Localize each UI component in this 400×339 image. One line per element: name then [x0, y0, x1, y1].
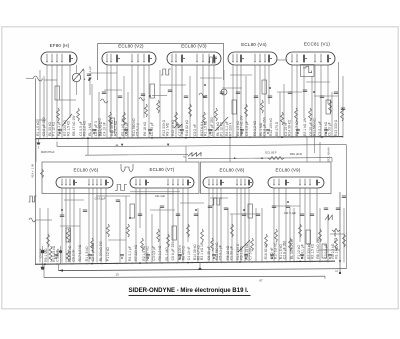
junction dots top — [56, 79, 323, 139]
interstage line b — [85, 153, 188, 156]
junction dots bottom — [44, 201, 341, 265]
waveform pulse pair under V3 — [161, 69, 171, 75]
svg-text:R16 82 kΩ: R16 82 kΩ — [185, 120, 189, 136]
decoupling caps at top bus — [58, 130, 328, 134]
resistors top section — [57, 100, 344, 125]
mid verticals — [36, 137, 320, 162]
svg-text:R2 1,5 kΩ: R2 1,5 kΩ — [67, 120, 71, 135]
svg-text:0,1 μF: 0,1 μF — [88, 66, 92, 75]
ground symbol below bottom bus — [41, 264, 45, 269]
horizontal resistor bottom right — [332, 228, 340, 243]
ground bus bottom section — [35, 261, 335, 264]
waveform box under V1 — [301, 65, 315, 77]
supply junction arrow — [198, 267, 202, 270]
svg-text:C2 8 μF 350: C2 8 μF 350 — [91, 243, 95, 262]
tube pin wires top section — [47, 65, 328, 138]
interstage line c — [186, 144, 346, 268]
component value labels above bottom ground bus — [44, 238, 339, 262]
component value labels above top ground bus — [36, 115, 338, 136]
tube V2 label — [118, 43, 144, 48]
tube V3 label — [181, 43, 207, 48]
svg-text:R3 1 kΩ 1W: R3 1 kΩ 1W — [200, 241, 204, 260]
cap label C11 — [284, 211, 297, 215]
waveform sine at input — [26, 76, 43, 81]
supply line lower — [44, 276, 325, 277]
svg-text:R11 560 kΩ: R11 560 kΩ — [313, 118, 317, 136]
svg-text:C3 0,5 μF: C3 0,5 μF — [324, 244, 328, 259]
svg-text:ECL80 (V8): ECL80 (V8) — [220, 168, 245, 173]
tube V3 envelope ECL80 — [167, 52, 221, 65]
svg-text:RRL (2L0): RRL (2L0) — [290, 152, 302, 156]
svg-text:C3 0,5 μF: C3 0,5 μF — [245, 121, 249, 136]
bus tick marks — [40, 135, 334, 265]
caption underline — [129, 294, 251, 296]
svg-text:C5 0,1 μF: C5 0,1 μF — [219, 245, 223, 260]
link wires top section — [36, 60, 338, 120]
svg-text:R8 470 Ω: R8 470 Ω — [275, 121, 279, 136]
tube pin wires bottom section — [62, 188, 317, 263]
left rotated note — [31, 164, 35, 178]
decoupling caps at bottom bus — [54, 255, 332, 259]
svg-text:R14 39 kΩ: R14 39 kΩ — [288, 120, 292, 136]
waveform pulse top — [208, 57, 217, 63]
svg-text:R16 82 kΩ: R16 82 kΩ — [264, 243, 268, 259]
waveform pulse pair under box1 — [115, 185, 127, 191]
svg-text:C9 2 nF: C9 2 nF — [72, 250, 76, 262]
svg-text:RL 1 MΩ: RL 1 MΩ — [88, 122, 92, 136]
extra wires top section — [40, 70, 343, 138]
svg-text:ECL 80 F: ECL 80 F — [265, 151, 277, 155]
svg-text:R17 6,8 kΩ: R17 6,8 kΩ — [274, 242, 278, 259]
pot arrow diagonal 3 — [238, 240, 250, 252]
waveform pulse mid bottom — [212, 198, 222, 205]
coupling cap 01uF label — [88, 66, 92, 95]
tube V7 label — [150, 167, 175, 172]
svg-text:RL 1 MΩ: RL 1 MΩ — [165, 247, 169, 261]
module box around V8 V9 — [201, 162, 332, 194]
svg-text:R5 4,7 kΩ: R5 4,7 kΩ — [114, 120, 118, 135]
svg-text:13: 13 — [115, 272, 119, 276]
caption SIDER-ONDYNE — [129, 287, 249, 294]
svg-text:C2 8 μF 350: C2 8 μF 350 — [283, 241, 287, 260]
svg-text:a1: a1 — [115, 143, 119, 147]
cap label under V7 — [130, 192, 180, 198]
svg-text:CL 50 μF: CL 50 μF — [150, 122, 154, 136]
supply connectors bottom — [44, 262, 325, 279]
interstage line d — [188, 157, 332, 162]
svg-text:ECC81 (V1): ECC81 (V1) — [304, 41, 331, 46]
svg-text:CL 50 μF: CL 50 μF — [230, 246, 234, 260]
svg-text:R9 1 MΩ: R9 1 MΩ — [240, 246, 244, 260]
svg-text:C7 5 nF: C7 5 nF — [249, 248, 253, 260]
tube V5 label — [304, 41, 331, 46]
waveform sine left bottom — [29, 218, 35, 222]
svg-text:R7 220 k: R7 220 k — [229, 122, 233, 136]
svg-text:R3 1 kΩ 1W: R3 1 kΩ 1W — [303, 117, 307, 136]
svg-text:C8 8 μF 350: C8 8 μF 350 — [263, 117, 267, 136]
svg-text:C3 0,5 μF: C3 0,5 μF — [152, 246, 156, 261]
capacitors top section — [87, 74, 345, 110]
supply line bottom — [59, 269, 347, 271]
svg-text:ECL80 (V4): ECL80 (V4) — [241, 42, 267, 47]
waveform saw mid — [174, 124, 182, 128]
waveform sine 2 — [101, 99, 108, 103]
resistor left bottom 2 — [66, 250, 69, 262]
interstage line a — [57, 142, 186, 147]
waveform sine under V3 — [199, 93, 206, 97]
svg-text:C9 2 nF: C9 2 nF — [193, 124, 197, 136]
resistors bottom section — [47, 224, 346, 251]
tube V1 envelope EF80 — [41, 52, 77, 65]
svg-text:R8 470 Ω: R8 470 Ω — [182, 246, 186, 261]
svg-text:ECL80 (V7): ECL80 (V7) — [150, 167, 175, 172]
tube V6 label — [74, 167, 99, 172]
svg-text:C4 10 nF: C4 10 nF — [103, 122, 107, 136]
boxed resistors top section — [55, 80, 331, 132]
svg-text:C5 0,1 μ: C5 0,1 μ — [136, 123, 140, 136]
svg-text:R6 18 kΩ: R6 18 kΩ — [143, 121, 147, 136]
svg-text:ECL NAHA: ECL NAHA — [327, 147, 331, 161]
svg-text:67: 67 — [259, 278, 263, 282]
ground bus top section — [35, 137, 343, 139]
right rail bottom section — [335, 192, 341, 274]
svg-text:EF80 (H): EF80 (H) — [50, 43, 70, 48]
waveform pulse left bottom — [29, 196, 37, 202]
svg-text:ECL80 (V3): ECL80 (V3) — [181, 43, 207, 48]
svg-text:RL 30 kΩ 1W: RL 30 kΩ 1W — [290, 238, 294, 259]
left arrowhead on supply line — [59, 269, 63, 271]
svg-text:SIDER-ONDYNE - Mire électroniq: SIDER-ONDYNE - Mire électronique B19 I. — [129, 287, 249, 294]
small pot circle — [221, 89, 227, 95]
svg-text:R1 1,5 kΩ: R1 1,5 kΩ — [36, 120, 40, 135]
tube V5 envelope ECC81 — [286, 52, 335, 65]
svg-text:R2L 30kΩ: R2L 30kΩ — [333, 229, 337, 243]
svg-text:R9 1 MΩ: R9 1 MΩ — [44, 248, 48, 262]
svg-text:R17 6,8 kΩ: R17 6,8 kΩ — [78, 244, 82, 261]
resistor left bottom 1 — [49, 246, 52, 262]
extra wires bottom section — [40, 196, 344, 263]
tube V6 envelope ECL80 — [56, 177, 113, 188]
mw label — [41, 151, 55, 154]
svg-text:ECL80 (V2): ECL80 (V2) — [118, 43, 144, 48]
svg-text:R9 2,2 kΩ: R9 2,2 kΩ — [253, 120, 257, 135]
cap label C9 — [94, 196, 105, 200]
svg-text:RB 47 kΩ 1W: RB 47 kΩ 1W — [72, 115, 76, 136]
svg-text:R1 1,5 kΩ: R1 1,5 kΩ — [85, 246, 89, 261]
tube V8 envelope ECL80 — [203, 177, 253, 188]
tube V1 label — [50, 43, 70, 48]
left rail — [35, 79, 37, 265]
bottom marks — [115, 272, 263, 282]
svg-text:R4 0,1 μF: R4 0,1 μF — [301, 244, 305, 259]
tube V2 envelope ECL80 — [102, 52, 156, 65]
tube V8 label — [220, 168, 245, 173]
pot arrow diagonal 2 — [62, 114, 72, 126]
series resistor on line d — [261, 151, 302, 160]
svg-text:R9 1 MΩ: R9 1 MΩ — [166, 122, 170, 136]
right rotated note — [327, 147, 331, 161]
svg-text:P1 12 kΩ: P1 12 kΩ — [106, 247, 110, 261]
electrolytic cap left 2 — [56, 246, 62, 264]
tc label — [183, 154, 186, 158]
boxed resistors bottom section — [66, 204, 327, 258]
interstage line a arrow 2 — [167, 144, 169, 147]
svg-text:C8 8 μF 350: C8 8 μF 350 — [171, 242, 175, 261]
svg-text:R12 100 kΩ: R12 100 kΩ — [269, 118, 273, 136]
module box around V2 V3 — [98, 44, 224, 80]
svg-text:R9 2,2 kΩ: R9 2,2 kΩ — [158, 245, 162, 260]
svg-text:R4 0,1 μF: R4 0,1 μF — [128, 246, 132, 261]
squiggle small a — [139, 98, 145, 101]
svg-text:R2 1,5 kΩ: R2 1,5 kΩ — [311, 243, 315, 258]
interstage line a arrow 1 — [115, 143, 123, 147]
svg-text:ECL80 (V6): ECL80 (V6) — [74, 167, 99, 172]
svg-text:C10 μF: C10 μF — [56, 248, 60, 258]
svg-text:41A + 1 W: 41A + 1 W — [31, 164, 35, 178]
svg-text:R9 2,2 kΩ: R9 2,2 kΩ — [83, 120, 87, 135]
potentiometer P1 — [72, 65, 85, 95]
sawtooth marks mid — [188, 153, 201, 157]
electrolytic cap left 1 — [38, 246, 44, 264]
waveform saw bottom right — [325, 215, 332, 220]
resistor on box1 left edge — [41, 169, 44, 178]
svg-text:RL 30 kΩ 1W: RL 30 kΩ 1W — [99, 240, 103, 261]
tube V7 envelope ECL80 — [130, 177, 194, 188]
svg-text:MW/CHH+F: MW/CHH+F — [41, 151, 55, 154]
svg-text:RB 47 kΩ 1W: RB 47 kΩ 1W — [316, 238, 320, 259]
svg-text:C6 25 μF: C6 25 μF — [125, 122, 129, 136]
link wires bottom section — [36, 196, 344, 250]
svg-text:CL 50 μF: CL 50 μF — [328, 122, 332, 136]
right rail top section — [337, 62, 339, 137]
tube V9 envelope ECL80 — [268, 177, 324, 188]
svg-text:C5 0,1 μF: C5 0,1 μF — [318, 121, 322, 136]
svg-text:C2L 2μF: C2L 2μF — [155, 194, 166, 198]
svg-text:P1 12 kΩ: P1 12 kΩ — [52, 122, 56, 136]
svg-text:C11 0,1μF: C11 0,1μF — [284, 211, 297, 215]
pot arrow diagonal 1 — [215, 117, 228, 131]
capacitors bottom section — [60, 196, 346, 217]
svg-text:ECL80 (V9): ECL80 (V9) — [276, 168, 301, 173]
tube V4 envelope ECL80 — [228, 52, 277, 65]
svg-text:C9 0,1μF: C9 0,1μF — [94, 196, 105, 200]
svg-text:C6 8μF: C6 8μF — [38, 248, 42, 258]
svg-text:R7 220 kΩ: R7 220 kΩ — [134, 244, 138, 260]
svg-text:C4 10 nF: C4 10 nF — [187, 246, 191, 260]
svg-text:R13 330 Ω: R13 330 Ω — [334, 119, 338, 136]
tube V9 label — [276, 168, 301, 173]
waveform squiggle between V6 V7 — [121, 164, 133, 172]
tube V4 label — [241, 42, 267, 47]
ground symbol left of bus — [37, 139, 41, 150]
module box around V6 V7 — [42, 162, 199, 194]
svg-text:C6 25 μF: C6 25 μF — [207, 246, 211, 260]
